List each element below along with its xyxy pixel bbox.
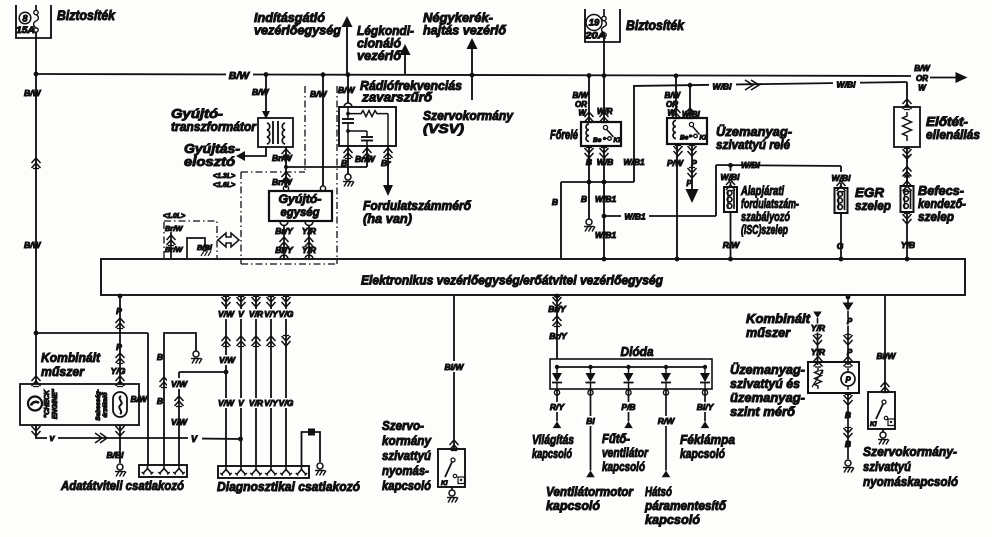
label Biztosíték (F2) — [626, 18, 685, 33]
label Rádiófrekvenciás zavarszűrő — [360, 78, 462, 105]
svg-text:B: B — [157, 352, 163, 362]
wire B/W-OR-W to main relay — [572, 74, 593, 123]
svg-text:B/W: B/W — [24, 240, 42, 250]
svg-text:P: P — [845, 376, 851, 385]
ground under right pressure switch — [878, 429, 889, 445]
svg-text:nyomáskapcsoló: nyomáskapcsoló — [863, 474, 958, 489]
svg-text:Kombinált: Kombinált — [41, 350, 101, 365]
svg-text:V/Y: V/Y — [264, 309, 279, 319]
label Fűtő-ventilátor kapcsoló — [602, 431, 649, 474]
wire main bus B/W — [34, 66, 911, 82]
svg-text:B/W: B/W — [914, 64, 931, 73]
svg-text:Kombinált: Kombinált — [746, 311, 811, 326]
wire Br/W filter link — [286, 146, 376, 167]
svg-text:B: B — [581, 194, 587, 204]
svg-text:Br/W: Br/W — [272, 177, 293, 187]
svg-text:Bl/W: Bl/W — [877, 351, 897, 361]
main relay output labels B W/B W/B1 — [585, 148, 645, 168]
wire B filter to ground — [341, 146, 354, 187]
wire bus exit arrow B/W OR W — [914, 64, 967, 93]
svg-text:Be: Be — [680, 135, 689, 142]
svg-text:B/W: B/W — [24, 88, 42, 98]
wire resistor to injector — [903, 147, 912, 192]
svg-text:Br/W: Br/W — [165, 224, 183, 233]
diagnostic connector Diagnosztikai csatlakozó — [218, 466, 309, 478]
svg-text:Bl/W: Bl/W — [445, 362, 465, 372]
label Légkondicionáló vezérlő — [357, 23, 414, 63]
svg-text:V/R: V/R — [249, 398, 264, 408]
label Előtét-ellenállás — [926, 114, 980, 142]
wire V/W link to diagnostic V/W — [179, 370, 228, 375]
variant selector double arrow — [218, 233, 239, 247]
svg-text:R/Y: R/Y — [550, 402, 566, 412]
svg-text:W/B1: W/B1 — [624, 212, 646, 222]
label Gyújtás-elosztó — [184, 141, 240, 169]
svg-text:P: P — [116, 306, 122, 316]
svg-text:P: P — [686, 179, 692, 188]
wire B/W to ignition unit — [310, 74, 328, 186]
svg-text:8: 8 — [22, 14, 27, 24]
wire W/Bl solenoid feed — [716, 160, 841, 170]
svg-text:Szervo-: Szervo- — [382, 418, 424, 433]
wire B/Bl cluster to ground — [107, 425, 127, 477]
svg-text:egység: egység — [281, 205, 321, 219]
svg-text:P: P — [116, 342, 122, 352]
wire W/Bl distribution — [633, 77, 907, 92]
svg-text:Sebesség-: Sebesség- — [95, 389, 102, 421]
svg-text:(ha van): (ha van) — [363, 211, 412, 226]
fuel pump relay K2 Üzemanyag-szivattyú relé — [667, 118, 707, 144]
svg-text:W/B1: W/B1 — [595, 230, 617, 240]
label Alapjárati (ISC)szelep — [740, 183, 799, 237]
label Adatátviteli csatlakozó — [60, 478, 184, 493]
wire W/Bl to dropping resistor — [903, 82, 912, 110]
wire B fuel pump to ground — [843, 393, 854, 473]
label 1.3L 1.6L — [213, 173, 235, 189]
svg-text:V/W: V/W — [218, 398, 235, 408]
svg-text:hajtás vezérlő: hajtás vezérlő — [423, 23, 507, 38]
svg-text:V/W: V/W — [171, 417, 188, 427]
svg-text:Y/R: Y/R — [302, 226, 317, 236]
label Gyújtó-transzformátor — [171, 106, 257, 134]
wire riser W/B1 to W/Bl line — [633, 86, 635, 182]
PS pump pressure switch (centre) — [438, 449, 465, 487]
svg-text:Y/R: Y/R — [811, 347, 826, 357]
wires Br/Y Y/R ignition unit to ECU — [275, 225, 317, 259]
svg-text:elosztó: elosztó — [184, 154, 235, 169]
wire Br/Y ECU to diode pack — [548, 294, 568, 359]
svg-text:B/W: B/W — [338, 85, 356, 95]
ECU Elektronikus vezérlőegység/erőátvitel vezérlőegység — [101, 259, 965, 295]
arrow Br to Fordulatszámmérő — [381, 146, 393, 196]
svg-text:Biztosíték: Biztosíték — [626, 18, 685, 33]
wire W/B1 to solenoid feed riser — [604, 165, 716, 222]
diode outputs R/Y Bl P/B R/W Bl/Y to switches — [546, 389, 716, 477]
svg-text:ventilátor: ventilátor — [602, 445, 649, 460]
svg-text:Elektronikus vezérlőegység/erő: Elektronikus vezérlőegység/erőátvitel ve… — [361, 273, 663, 288]
svg-text:Féklámpa: Féklámpa — [680, 432, 735, 447]
svg-text:V/W: V/W — [218, 309, 235, 319]
fuel relay output labels P/W P — [667, 146, 697, 169]
svg-text:Br/Y: Br/Y — [549, 331, 568, 341]
svg-text:Bl/Y: Bl/Y — [697, 402, 715, 412]
svg-text:ellenállás: ellenállás — [926, 127, 980, 142]
svg-text:Y/R: Y/R — [302, 245, 317, 255]
arrow to Gyújtás-elosztó — [236, 147, 266, 161]
svg-text:B: B — [845, 439, 851, 449]
svg-text:"CHECK: "CHECK — [44, 389, 51, 418]
label Főrelé — [550, 127, 578, 142]
svg-text:szivattyú: szivattyú — [382, 448, 431, 463]
wire Y/R instrument cluster to fuel gauge — [811, 312, 826, 366]
arrow to Négykerékhajtás vezérlő — [467, 38, 478, 74]
svg-text:Adatátviteli csatlakozó: Adatátviteli csatlakozó — [60, 478, 184, 493]
EGR valve — [835, 188, 848, 213]
svg-text:W/Bl: W/Bl — [741, 160, 761, 170]
diode pack Dióda D1-D5 — [550, 359, 712, 389]
ground under centre pressure switch — [447, 487, 458, 503]
wire diagnostic jumper to ground — [302, 429, 327, 476]
svg-text:kormány: kormány — [382, 433, 432, 448]
svg-text:W/B: W/B — [597, 157, 614, 167]
wires V/W V V/R V/Y V/G ECU to diagnostic connector — [217, 296, 295, 466]
svg-text:kapcsoló: kapcsoló — [382, 478, 431, 493]
svg-text:B: B — [845, 410, 851, 420]
svg-text:G: G — [837, 241, 844, 251]
svg-text:W: W — [918, 84, 927, 93]
svg-text:V/W: V/W — [219, 355, 236, 365]
svg-text:Br/W: Br/W — [272, 153, 293, 163]
transformer T1 Gyújtó-transzformátor — [258, 118, 293, 147]
label Szervokormány (VSV) — [423, 108, 514, 136]
svg-text:kapcsoló: kapcsoló — [532, 446, 572, 461]
svg-text:B/W: B/W — [664, 91, 681, 100]
label Diagnosztikai csatlakozó — [217, 479, 360, 494]
label Szervo-kormány szivattyú nyomás-kapcsoló — [382, 418, 432, 493]
svg-text:<1.3L>: <1.3L> — [213, 173, 235, 180]
svg-text:szivattyú: szivattyú — [863, 459, 911, 474]
label Indításgátló vezérlőegység — [254, 10, 341, 38]
wire R/W ISC valve to ECU — [723, 212, 741, 261]
label Hátsó páramentesítő kapcsoló — [644, 484, 727, 527]
variant region 1.0L box — [164, 221, 217, 259]
svg-text:Ki: Ki — [870, 421, 877, 428]
fuse F1 8 15A — [16, 5, 51, 38]
svg-text:P/W: P/W — [667, 158, 684, 168]
fuel pump and level sender Üzemanyag-szivattyú és üzemanyagszint mérő — [808, 357, 859, 394]
wire Bl/W ECU to PS pressure switch right — [877, 296, 897, 393]
svg-text:V/Y: V/Y — [264, 398, 279, 408]
wire B/W to RF filter — [338, 74, 356, 107]
variant region boundary 1.3L/1.6L — [241, 86, 337, 264]
svg-text:W/Bl: W/Bl — [713, 82, 733, 92]
wire W/B1 main relay to ECU — [595, 146, 617, 261]
svg-text:Br/Y: Br/Y — [275, 245, 294, 255]
svg-text:V/R: V/R — [249, 309, 264, 319]
svg-text:B/W: B/W — [310, 89, 328, 99]
svg-text:vezérlő: vezérlő — [357, 48, 402, 63]
arrow P to fuel pump — [686, 144, 699, 203]
svg-text:Be: Be — [593, 137, 602, 144]
svg-text:V/G: V/G — [279, 309, 294, 319]
svg-text:W/B1: W/B1 — [595, 194, 617, 204]
label EGR szelep — [855, 185, 891, 213]
svg-text:<1.6L>: <1.6L> — [213, 182, 235, 189]
svg-text:Y/G: Y/G — [111, 366, 126, 376]
svg-text:vezérlőegység: vezérlőegység — [254, 23, 341, 38]
svg-text:páramentesítő: páramentesítő — [644, 498, 727, 513]
svg-text:Ventilátormotor: Ventilátormotor — [546, 484, 634, 499]
svg-text:R/W: R/W — [658, 416, 676, 426]
svg-text:Br/W: Br/W — [165, 245, 183, 254]
label Ventilátormotor kapcsoló — [546, 484, 634, 513]
arrow to Légkondicionáló vezérlő — [400, 44, 411, 74]
wire B data link connector to ground — [157, 333, 202, 465]
svg-text:Üzemanyag-: Üzemanyag- — [730, 362, 805, 377]
RF filter Rádiófrekvenciás zavarszűrő — [339, 107, 396, 146]
injector Befecskendező szelep — [901, 186, 914, 212]
label Biztosíték (F1) — [57, 8, 116, 23]
svg-text:15A: 15A — [16, 25, 35, 36]
svg-text:B/W: B/W — [572, 91, 589, 100]
svg-text:Br: Br — [381, 158, 391, 168]
wire stub to Szervokormány VSV — [471, 74, 473, 100]
wire P ECU to fuel pump — [843, 295, 854, 365]
svg-text:B: B — [552, 197, 558, 207]
svg-text:R/W: R/W — [723, 240, 741, 250]
label Fordulatszámmérő (ha van) — [363, 198, 472, 226]
svg-text:W/Bl: W/Bl — [837, 80, 857, 90]
svg-text:Bl: Bl — [586, 416, 595, 426]
svg-text:Br/Y: Br/Y — [548, 304, 567, 314]
svg-text:Főrelé: Főrelé — [550, 127, 578, 142]
wire Y/B injector to ECU — [901, 212, 915, 261]
wire B/W to data link connector — [36, 333, 148, 465]
wire Br/W 1.0L to ECU — [165, 224, 183, 259]
wire W/Bl to ISC valve — [717, 165, 744, 191]
svg-text:Br/Y: Br/Y — [275, 226, 294, 236]
svg-text:V: V — [191, 434, 198, 444]
svg-text:szivattyú és: szivattyú és — [730, 376, 800, 391]
svg-text:zavarszűrő: zavarszűrő — [361, 90, 433, 105]
wire P/Y-G ECU to instrument cluster — [111, 294, 126, 387]
fuse F2 19 20A — [584, 9, 620, 42]
svg-text:B: B — [341, 158, 347, 168]
svg-text:V/G: V/G — [279, 398, 294, 408]
wire B main relay to ECU — [552, 180, 634, 259]
svg-text:P: P — [847, 348, 853, 357]
wire B/W to instrument cluster — [32, 333, 41, 387]
PS pump pressure switch (right) — [868, 392, 895, 429]
label Üzemanyag-szivattyú relé — [716, 124, 792, 152]
main relay K1 Főrelé — [581, 122, 621, 146]
svg-text:kapcsoló: kapcsoló — [645, 512, 700, 527]
svg-text:(ISC)szelep: (ISC)szelep — [741, 222, 788, 237]
svg-text:Dióda: Dióda — [621, 344, 654, 359]
wire P/W fuel relay to ECU — [675, 144, 680, 261]
svg-text:19: 19 — [589, 18, 600, 29]
wire B/Bl 1.0L jumper to ground — [187, 238, 213, 259]
svg-text:(VSV): (VSV) — [423, 121, 464, 136]
wire W/R F2 to main relay — [597, 37, 613, 123]
svg-text:Y/B: Y/B — [901, 240, 915, 250]
svg-text:Szervokormány-: Szervokormány- — [863, 444, 957, 459]
svg-text:nyomás-: nyomás- — [382, 463, 429, 478]
wire W/Bl to EGR valve — [828, 166, 855, 192]
svg-text:szivattyú relé: szivattyú relé — [716, 137, 790, 152]
svg-text:kapcsoló: kapcsoló — [602, 459, 645, 474]
svg-text:szelep: szelep — [855, 198, 891, 213]
svg-text:transzformátor: transzformátor — [171, 119, 257, 134]
svg-text:B/W: B/W — [229, 70, 251, 82]
svg-text:B: B — [157, 396, 163, 406]
label Kombinált műszer — [41, 350, 101, 379]
dropping resistor Előtét-ellenállás — [894, 107, 920, 147]
svg-text:<1.0L>: <1.0L> — [163, 213, 185, 220]
svg-text:Br/W: Br/W — [355, 154, 376, 164]
svg-text:Diagnosztikai csatlakozó: Diagnosztikai csatlakozó — [217, 479, 360, 494]
svg-text:Ki: Ki — [441, 480, 448, 487]
wire Bl/W ECU to PS pressure switch — [441, 296, 468, 451]
svg-text:kapcsoló: kapcsoló — [546, 498, 600, 513]
wire B/W left drop from F1 — [24, 32, 42, 335]
svg-text:Világítás: Világítás — [532, 432, 574, 447]
label Szervokormány-szivattyú nyomáskapcsoló — [863, 444, 958, 489]
svg-text:műszer: műszer — [41, 364, 85, 379]
wire V/W data link connector — [167, 372, 192, 465]
wire B main relay to ground — [581, 146, 595, 232]
svg-text:üzemanyag-: üzemanyag- — [730, 390, 805, 405]
label Féklámpa kapcsoló — [680, 432, 735, 461]
svg-text:Ki: Ki — [700, 135, 707, 142]
svg-text:Biztosíték: Biztosíték — [57, 8, 116, 23]
svg-text:Gyújtó-: Gyújtó- — [279, 192, 322, 206]
label Befecskendező szelep — [918, 183, 966, 224]
svg-text:OR: OR — [916, 74, 928, 83]
wire B/W-OR-W to fuel pump relay — [664, 76, 681, 119]
svg-text:B/Bl: B/Bl — [107, 450, 125, 460]
svg-text:B/W: B/W — [252, 87, 270, 97]
svg-text:W/R: W/R — [597, 107, 613, 116]
wire G EGR valve to ECU — [837, 213, 844, 261]
instrument cluster Kombinált műszer — [20, 384, 139, 425]
wire V speedometer signal — [32, 425, 243, 444]
wire Br/W T1 to ignition unit — [272, 147, 293, 188]
svg-text:Y/R: Y/R — [811, 323, 826, 333]
arrow to Indításgátló vezérlőegység — [342, 16, 353, 74]
label Világítás kapcsoló — [532, 432, 574, 461]
data link connector Adatátviteli csatlakozó — [139, 465, 187, 477]
svg-text:Ki: Ki — [614, 137, 621, 144]
svg-text:P: P — [847, 317, 853, 326]
wire W/Bl to fuel pump relay — [682, 83, 701, 119]
label Üzemanyag-szivattyú és üzemanyag-szint mérő — [730, 362, 805, 419]
svg-text:szelep: szelep — [918, 209, 954, 224]
label Kombinált műszer (right) — [746, 311, 811, 340]
svg-text:Hátsó: Hátsó — [645, 484, 672, 499]
wire B/W to transformer T1 — [252, 74, 270, 119]
svg-text:Fűtő-: Fűtő- — [602, 431, 630, 446]
svg-text:műszer: műszer — [746, 325, 791, 340]
label Négykerékhajtás vezérlő — [423, 10, 507, 38]
svg-text:P/B: P/B — [621, 402, 635, 412]
label 1.0L — [163, 213, 185, 220]
svg-text:ENGINE": ENGINE" — [52, 388, 59, 419]
svg-text:szint mérő: szint mérő — [730, 404, 796, 419]
ISC valve Alapjárati fordulatszám-szabályozó szelep — [724, 187, 737, 212]
svg-text:V/W: V/W — [171, 379, 188, 389]
svg-text:érzékelő: érzékelő — [102, 391, 109, 417]
ignition unit U2 Gyújtó-egység — [269, 186, 332, 226]
svg-text:kapcsoló: kapcsoló — [680, 446, 725, 461]
label Dióda — [621, 344, 654, 359]
